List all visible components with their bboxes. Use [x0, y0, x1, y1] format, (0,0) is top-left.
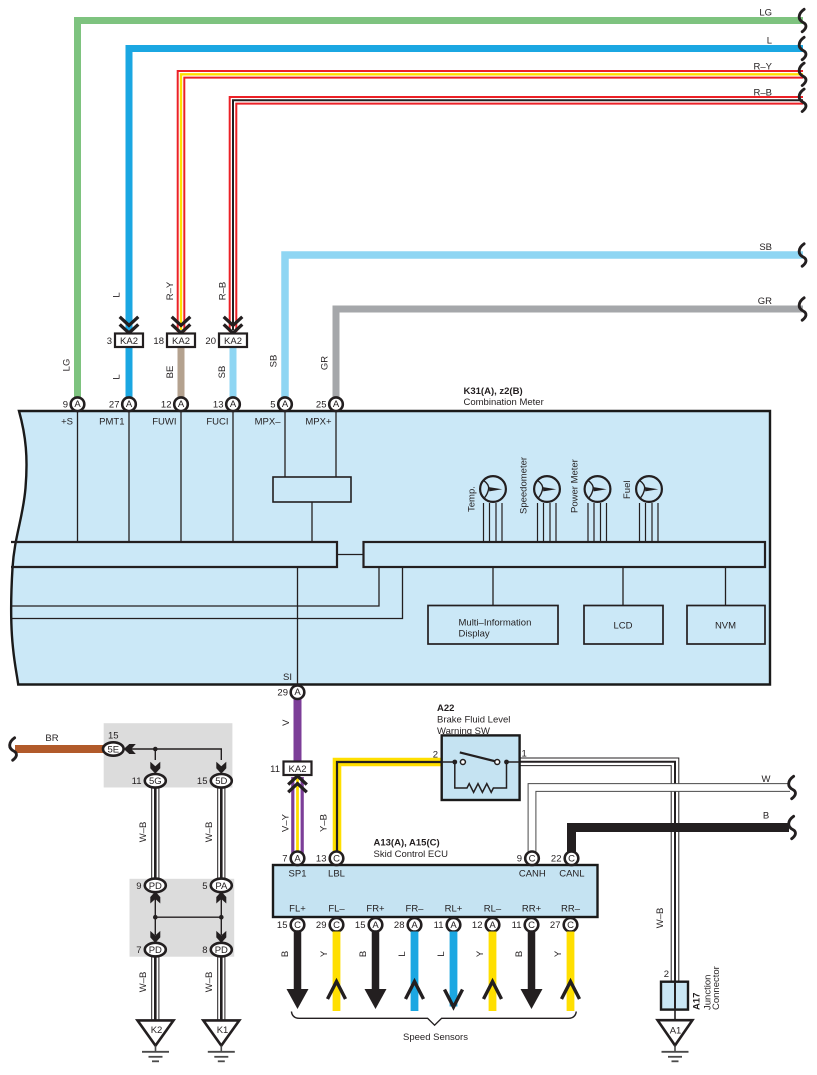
svg-text:BR: BR: [45, 733, 58, 744]
svg-text:A17: A17: [692, 993, 703, 1010]
svg-text:SB: SB: [269, 355, 280, 368]
svg-text:FUWI: FUWI: [152, 417, 176, 428]
svg-text:A: A: [411, 920, 418, 931]
svg-text:Warning SW: Warning SW: [437, 726, 490, 737]
svg-text:Fuel: Fuel: [622, 481, 633, 499]
svg-text:B: B: [514, 951, 525, 957]
svg-text:2: 2: [664, 969, 669, 980]
svg-text:RL+: RL+: [445, 904, 463, 915]
svg-text:A: A: [294, 853, 301, 864]
svg-text:5: 5: [202, 881, 207, 892]
svg-text:11: 11: [132, 776, 142, 787]
svg-text:15: 15: [277, 920, 288, 931]
svg-text:LBL: LBL: [328, 869, 345, 880]
svg-text:22: 22: [551, 854, 562, 865]
svg-text:Display: Display: [459, 629, 490, 640]
svg-text:PD: PD: [149, 881, 162, 892]
svg-text:9: 9: [63, 400, 68, 411]
svg-text:R–Y: R–Y: [754, 61, 773, 72]
svg-text:C: C: [528, 920, 535, 931]
svg-text:A: A: [372, 920, 379, 931]
svg-text:Temp.: Temp.: [467, 486, 478, 512]
svg-text:27: 27: [550, 920, 561, 931]
svg-text:K31(A), z2(B): K31(A), z2(B): [464, 386, 523, 397]
svg-text:FL+: FL+: [289, 904, 306, 915]
svg-text:BE: BE: [165, 366, 176, 379]
svg-text:MPX+: MPX+: [305, 417, 332, 428]
svg-text:9: 9: [517, 854, 522, 865]
svg-text:NVM: NVM: [715, 621, 736, 632]
svg-text:7: 7: [282, 854, 287, 865]
svg-text:8: 8: [202, 945, 207, 956]
svg-text:Power Meter: Power Meter: [570, 459, 581, 513]
svg-text:SB: SB: [217, 366, 228, 379]
svg-text:A: A: [294, 687, 301, 698]
svg-text:12: 12: [161, 400, 172, 411]
svg-text:7: 7: [136, 945, 141, 956]
svg-text:15: 15: [355, 920, 366, 931]
svg-text:A: A: [333, 399, 340, 410]
svg-text:L: L: [112, 292, 123, 297]
svg-text:Y: Y: [553, 950, 564, 957]
svg-text:W: W: [762, 774, 771, 785]
svg-text:B: B: [358, 951, 369, 957]
svg-text:W–B: W–B: [204, 972, 215, 993]
svg-text:5E: 5E: [107, 744, 119, 755]
svg-text:SI: SI: [283, 672, 292, 683]
svg-text:Speed Sensors: Speed Sensors: [403, 1032, 468, 1043]
svg-text:W–B: W–B: [138, 972, 149, 993]
svg-text:29: 29: [277, 688, 288, 699]
svg-text:V: V: [281, 719, 292, 726]
svg-text:A: A: [489, 920, 496, 931]
svg-text:C: C: [333, 920, 340, 931]
svg-text:GR: GR: [320, 356, 331, 370]
svg-text:CANL: CANL: [559, 869, 584, 880]
svg-text:29: 29: [316, 920, 327, 931]
svg-text:Combination Meter: Combination Meter: [464, 397, 544, 408]
svg-text:L: L: [397, 951, 408, 956]
svg-text:L: L: [112, 374, 123, 379]
svg-text:C: C: [568, 853, 575, 864]
svg-text:Y: Y: [475, 950, 486, 957]
svg-text:C: C: [529, 853, 536, 864]
svg-text:FR–: FR–: [406, 904, 425, 915]
svg-text:K1: K1: [217, 1025, 229, 1036]
svg-text:3: 3: [107, 336, 112, 347]
svg-text:KA2: KA2: [120, 336, 138, 347]
svg-text:KA2: KA2: [224, 336, 242, 347]
svg-text:R–B: R–B: [218, 282, 229, 300]
svg-text:27: 27: [109, 400, 120, 411]
svg-text:2: 2: [433, 750, 438, 761]
svg-text:Y–B: Y–B: [319, 814, 330, 832]
svg-text:A: A: [126, 399, 133, 410]
svg-text:18: 18: [153, 336, 164, 347]
svg-text:A1: A1: [670, 1026, 682, 1037]
svg-text:SB: SB: [759, 242, 772, 253]
svg-text:W–B: W–B: [204, 822, 215, 843]
svg-text:PD: PD: [215, 945, 228, 956]
svg-text:LG: LG: [759, 8, 772, 19]
svg-text:W–B: W–B: [655, 908, 666, 929]
svg-text:11: 11: [270, 764, 280, 775]
svg-text:5: 5: [270, 400, 275, 411]
svg-text:LCD: LCD: [613, 621, 632, 632]
svg-text:Brake Fluid Level: Brake Fluid Level: [437, 715, 510, 726]
svg-text:11: 11: [434, 920, 444, 931]
svg-text:R–B: R–B: [754, 87, 772, 98]
svg-text:RL–: RL–: [484, 904, 502, 915]
svg-text:13: 13: [316, 854, 327, 865]
svg-text:Skid Control ECU: Skid Control ECU: [374, 849, 449, 860]
svg-text:11: 11: [512, 920, 522, 931]
svg-text:PD: PD: [149, 945, 162, 956]
svg-text:K2: K2: [151, 1025, 163, 1036]
svg-text:FR+: FR+: [366, 904, 385, 915]
svg-text:PA: PA: [215, 881, 228, 892]
svg-text:RR–: RR–: [561, 904, 581, 915]
svg-text:A22: A22: [437, 703, 454, 714]
svg-text:28: 28: [394, 920, 405, 931]
svg-text:A: A: [450, 920, 457, 931]
svg-text:CANH: CANH: [519, 869, 546, 880]
svg-text:C: C: [567, 920, 574, 931]
svg-text:Y: Y: [319, 950, 330, 957]
svg-text:A: A: [74, 399, 81, 410]
svg-text:FUCI: FUCI: [206, 417, 228, 428]
svg-text:W–B: W–B: [138, 822, 149, 843]
svg-text:12: 12: [472, 920, 483, 931]
svg-text:5G: 5G: [149, 776, 162, 787]
svg-text:+S: +S: [61, 417, 73, 428]
svg-text:Speedometer: Speedometer: [519, 457, 530, 514]
svg-text:PMT1: PMT1: [99, 417, 124, 428]
svg-text:RR+: RR+: [522, 904, 542, 915]
svg-text:5D: 5D: [215, 776, 227, 787]
svg-text:B: B: [763, 811, 769, 822]
svg-text:Multi–Information: Multi–Information: [459, 618, 532, 629]
svg-text:15: 15: [197, 776, 208, 787]
svg-text:A13(A), A15(C): A13(A), A15(C): [374, 838, 440, 849]
svg-text:25: 25: [316, 400, 327, 411]
svg-text:C: C: [294, 920, 301, 931]
svg-text:LG: LG: [62, 359, 73, 372]
svg-text:A: A: [282, 399, 289, 410]
svg-text:V–Y: V–Y: [281, 813, 292, 832]
svg-text:SP1: SP1: [289, 869, 307, 880]
svg-text:15: 15: [108, 731, 119, 742]
svg-text:MPX–: MPX–: [255, 417, 282, 428]
svg-text:9: 9: [136, 881, 141, 892]
svg-text:1: 1: [522, 749, 527, 760]
svg-text:L: L: [436, 951, 447, 956]
svg-text:Connector: Connector: [711, 966, 722, 1010]
svg-text:B: B: [280, 951, 291, 957]
svg-text:FL–: FL–: [328, 904, 345, 915]
svg-text:KA2: KA2: [172, 336, 190, 347]
svg-text:GR: GR: [758, 296, 772, 307]
svg-text:KA2: KA2: [289, 764, 307, 775]
svg-text:C: C: [333, 853, 340, 864]
svg-text:13: 13: [213, 400, 224, 411]
svg-text:A: A: [230, 399, 237, 410]
svg-text:A: A: [178, 399, 185, 410]
svg-text:R–Y: R–Y: [165, 281, 176, 300]
svg-text:20: 20: [205, 336, 216, 347]
svg-text:L: L: [767, 36, 772, 47]
